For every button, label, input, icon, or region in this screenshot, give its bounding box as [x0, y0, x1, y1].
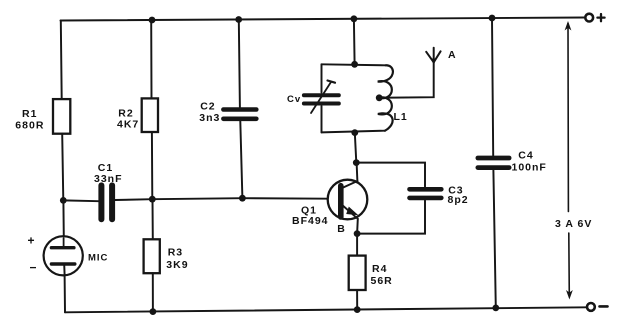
- svg-text:3K9: 3K9: [166, 259, 188, 271]
- node bottom rail / R4: [354, 306, 361, 313]
- wire C3 branch top: [356, 163, 425, 187]
- node bottom rail / R3: [150, 308, 157, 315]
- wire tank left: Cv to bottom: [321, 106, 323, 132]
- node base wire / R2-R3: [149, 196, 156, 203]
- svg-text:+: +: [28, 233, 36, 247]
- svg-text:8p2: 8p2: [448, 194, 469, 206]
- svg-text:L1: L1: [394, 111, 408, 123]
- node top rail / tank column: [351, 15, 358, 22]
- resistor R4: [349, 256, 366, 290]
- wire node to MIC: [62, 200, 64, 238]
- wire supply voltage arrow lower: [568, 233, 571, 297]
- wire MIC to bottom rail: [64, 275, 66, 312]
- svg-text:R3: R3: [168, 247, 183, 259]
- capacitor C2: [223, 107, 256, 112]
- wire node down to transistor collector: [356, 163, 359, 182]
- node emitter / C3 return: [354, 230, 361, 237]
- svg-text:C2: C2: [200, 101, 215, 113]
- node tank top: [351, 61, 358, 68]
- svg-text:33nF: 33nF: [94, 173, 123, 185]
- wire C4 column: rail to C4: [492, 18, 493, 156]
- wire tank bottom to collector node: [355, 133, 357, 163]
- svg-text:680R: 680R: [15, 120, 44, 132]
- node base wire / left column: [60, 197, 67, 204]
- capacitor C4: [478, 156, 509, 161]
- wire bottom supply rail: [65, 307, 586, 312]
- antenna A: [433, 48, 435, 63]
- wire node to C2 node: [152, 198, 242, 199]
- node L1 tap: [376, 94, 383, 101]
- wire C3 branch bottom: [357, 200, 425, 233]
- svg-text:100nF: 100nF: [512, 162, 547, 174]
- terminal + (positive supply): [585, 14, 593, 22]
- node top rail / R2 column: [149, 17, 156, 24]
- wire C4 to bottom rail: [493, 170, 495, 308]
- wire R2 to base node: [151, 132, 153, 199]
- svg-text:4K7: 4K7: [117, 119, 139, 131]
- svg-text:A: A: [448, 49, 457, 61]
- svg-text:Cv: Cv: [287, 94, 301, 105]
- wire tank top horizontal: [322, 64, 386, 65]
- svg-text:−: −: [30, 260, 38, 274]
- node collector / C3 branch: [353, 159, 360, 166]
- node bottom rail / C4: [492, 305, 499, 312]
- svg-text:C4: C4: [518, 150, 533, 162]
- wire R1 to mic node: [62, 134, 63, 201]
- wire C2 node to transistor base: [242, 197, 328, 200]
- resistor R3: [144, 239, 160, 273]
- wire tank left: top to Cv: [321, 64, 323, 92]
- capacitor C3: [410, 187, 442, 192]
- svg-text:56R: 56R: [371, 275, 393, 287]
- svg-text:B: B: [337, 223, 346, 235]
- wire emitter to node: [356, 219, 359, 234]
- capacitor Cv (variable): [304, 93, 339, 97]
- wire R4 to bottom rail: [356, 290, 358, 310]
- svg-text:R1: R1: [22, 108, 37, 120]
- terminal - (negative supply): [587, 303, 595, 311]
- wire tap to antenna: [379, 62, 434, 98]
- svg-text:BF494: BF494: [292, 215, 329, 227]
- wire left column: rail to R1: [60, 21, 63, 100]
- transistor Q1: [328, 180, 368, 220]
- inductor L1: [378, 65, 393, 130]
- node top rail / C4 column: [489, 15, 496, 22]
- microphone MIC: [44, 236, 83, 275]
- wire tank bottom horizontal: [322, 131, 386, 133]
- wire R3 to bottom rail: [152, 273, 154, 311]
- wire R2 column: rail to R2: [150, 20, 152, 98]
- resistor R1: [53, 99, 70, 134]
- svg-text:3n3: 3n3: [199, 112, 220, 124]
- capacitor C1: [98, 185, 104, 219]
- wire supply voltage arrow upper: [567, 24, 569, 212]
- node base wire / C2: [239, 195, 246, 202]
- wire C1 to R2-R3 node: [115, 198, 152, 201]
- wire base signal: mic node to C1: [63, 199, 98, 202]
- node top rail / C2 column: [235, 16, 242, 23]
- svg-text:3 A 6V: 3 A 6V: [555, 218, 592, 230]
- svg-text:MIC: MIC: [88, 253, 108, 264]
- resistor R2: [142, 98, 158, 132]
- node tank bottom: [351, 129, 358, 136]
- wire node to R3: [152, 199, 154, 239]
- svg-text:R4: R4: [372, 263, 387, 275]
- wire emitter node to R4: [356, 234, 358, 256]
- wire C2 column: rail to C2: [239, 20, 240, 108]
- wire top supply rail: [61, 18, 585, 21]
- wire C2 to base wire: [240, 121, 242, 198]
- wire top rail to tank: [353, 19, 356, 64]
